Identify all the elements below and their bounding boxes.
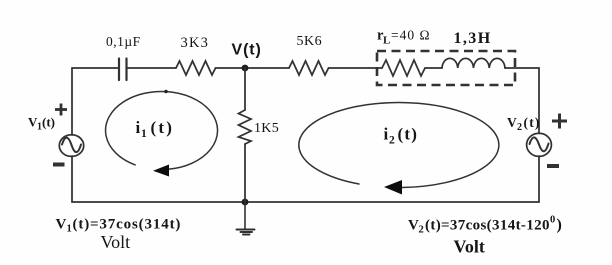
loop current i2 arrowhead (384, 180, 402, 195)
svg-text:1: 1 (67, 224, 72, 235)
source V1 circle (59, 135, 83, 157)
label 1,3H (454, 30, 492, 47)
svg-text:(t)=37cos(314t-120: (t)=37cos(314t-120 (425, 218, 550, 234)
wire node to resistor 1K5 (244, 68, 246, 110)
wire top-left segment (72, 67, 118, 69)
wire rL to inductor (425, 67, 442, 69)
resistor rL (382, 60, 425, 76)
plus sign V2 (552, 114, 567, 129)
loop current i1 top dot (164, 90, 168, 94)
svg-text:Volt: Volt (101, 232, 131, 252)
wire resistor 1K5 to bottom node (244, 144, 246, 202)
source V1 sine (62, 138, 81, 153)
svg-text:(t): (t) (398, 125, 419, 144)
minus sign V2 (547, 164, 559, 168)
svg-text:2: 2 (419, 225, 424, 236)
svg-text:i: i (136, 118, 141, 137)
svg-text:V: V (507, 115, 517, 130)
wire bottom (72, 201, 539, 203)
svg-text:V(t): V(t) (232, 42, 262, 59)
label V(t) (232, 42, 262, 59)
svg-text:(t): (t) (151, 118, 175, 137)
resistor R 5K6 (289, 61, 329, 75)
wire source V1 to bottom-left corner (71, 156, 73, 202)
wire top-left corner down (71, 68, 73, 135)
svg-text:V: V (56, 217, 67, 233)
loop current i2 arc (299, 103, 499, 188)
svg-text:0: 0 (550, 215, 555, 226)
svg-text:2: 2 (517, 122, 522, 133)
label V2(t) (507, 115, 541, 133)
minus sign V1 (53, 163, 65, 167)
label V1(t) (28, 115, 55, 133)
label i1(t) (136, 118, 175, 140)
label Volt left (101, 232, 131, 252)
svg-text:(t): (t) (42, 115, 55, 130)
svg-text:(t): (t) (524, 115, 541, 130)
svg-text:L: L (383, 35, 390, 47)
svg-text:1K5: 1K5 (254, 121, 279, 136)
capacitor C 0,1uF (119, 59, 127, 81)
wire R 3K3 to node (216, 67, 290, 69)
wire capacitor to R 3K3 (128, 67, 177, 69)
svg-text:2: 2 (389, 135, 395, 147)
source V2 sine (530, 137, 549, 151)
label 5K6 (297, 34, 323, 49)
svg-text:V: V (408, 218, 419, 234)
label V1(t)=37cos(314t) (56, 217, 182, 235)
ground (237, 202, 255, 235)
inductor L 1,3H (442, 58, 505, 68)
wire source V2 to bottom-right corner (538, 156, 540, 202)
svg-text:1: 1 (141, 128, 147, 140)
svg-text:Volt: Volt (454, 237, 485, 257)
resistor R 3K3 (176, 61, 216, 75)
svg-text:): ) (557, 217, 562, 234)
label 1K5 (254, 121, 279, 136)
label i2(t) (384, 125, 419, 147)
wire R 5K6 to rL (329, 67, 383, 69)
svg-text:5K6: 5K6 (297, 34, 323, 49)
node bottom junction dot (242, 199, 249, 206)
label 0,1uF (106, 34, 141, 49)
node V(t) junction dot (242, 65, 249, 72)
wire inductor to top-right corner and down (505, 68, 539, 134)
svg-text:0,1µF: 0,1µF (106, 34, 141, 49)
plus sign V1 (55, 104, 67, 116)
svg-text:1,3H: 1,3H (454, 30, 492, 47)
svg-text:3K3: 3K3 (181, 35, 210, 51)
label V2(t)=37cos(314t-120) (408, 215, 562, 236)
loop current i1 arrowhead (153, 165, 169, 177)
label Volt right (454, 237, 485, 257)
label 3K3 (181, 35, 210, 51)
resistor 1K5 (239, 110, 252, 144)
dashed outline real coil (377, 51, 515, 85)
svg-text:i: i (384, 125, 389, 144)
svg-text:=40 Ω: =40 Ω (391, 28, 431, 43)
label rL=40 Ohm (377, 28, 431, 47)
source V2 circle (527, 133, 552, 156)
loop current i1 arc (106, 91, 218, 169)
svg-text:(t)=37cos(314t): (t)=37cos(314t) (73, 217, 182, 233)
